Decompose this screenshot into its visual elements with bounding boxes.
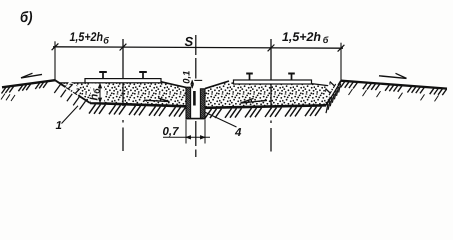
ground surface right xyxy=(341,81,447,89)
white gap for h_б dim xyxy=(91,84,105,103)
svg-text:S: S xyxy=(185,34,194,49)
ballast top dip to trench (right) xyxy=(205,81,229,89)
rail right-2 xyxy=(291,74,293,80)
hatch slope right xyxy=(339,84,341,93)
dim h_б arrows xyxy=(98,84,101,88)
trough bottom left xyxy=(90,103,186,106)
svg-text:4: 4 xyxy=(234,127,242,139)
slope arrow right trough xyxy=(241,100,268,103)
dimension tick slash x=271 xyxy=(268,45,275,52)
ground surface left xyxy=(2,80,55,87)
dimension tick slash x=123 xyxy=(120,44,127,51)
leader 4 xyxy=(205,112,237,127)
track axis right (x=271) xyxy=(270,39,272,108)
trough bottom right xyxy=(205,105,326,108)
leader 1 xyxy=(62,106,79,124)
dim label 0,1 xyxy=(182,70,193,85)
hatch ground right row2 xyxy=(349,89,353,95)
extension line right (x=341) xyxy=(340,43,342,81)
dim 0,1 arrows xyxy=(191,80,194,83)
dimension tick slash x=55 xyxy=(52,43,59,50)
dim 0,1 line xyxy=(191,80,193,88)
dim 0,7 line xyxy=(163,136,210,138)
hatch slope left xyxy=(54,85,60,93)
hatch ground left extra row xyxy=(1,94,5,100)
slope label left 1.1 xyxy=(64,81,83,98)
rail left-1 xyxy=(102,73,104,79)
sleeper right (plan plank) xyxy=(234,80,312,84)
slope arrow left trough xyxy=(144,100,170,101)
dim h_б line xyxy=(99,84,101,103)
dim label h_б xyxy=(89,88,102,101)
dim 0,7 arrows xyxy=(186,136,191,139)
svg-text:1: 1 xyxy=(56,120,62,132)
ballast top dip to trench (left) xyxy=(160,82,186,88)
track axis left (x=123) xyxy=(122,39,124,106)
dimension line top xyxy=(53,47,343,48)
svg-text:б: б xyxy=(323,35,329,45)
flow arrow right (ground) xyxy=(379,76,407,79)
rail right-1 xyxy=(249,74,251,80)
ballast bed left (stippled) xyxy=(60,82,187,106)
rail left-2 xyxy=(142,73,144,79)
ballast bed right (stippled) xyxy=(205,81,334,108)
hatch under trough bottom right xyxy=(205,109,212,118)
sleeper left (plan plank) xyxy=(85,79,161,83)
svg-text:1,5+2h: 1,5+2h xyxy=(282,30,321,44)
trench left wall xyxy=(186,87,191,118)
hatch ground right xyxy=(341,82,345,88)
trench bottom xyxy=(186,118,206,120)
flow arrow left (ground) xyxy=(21,74,42,78)
dim 0,7 ext lines xyxy=(185,120,187,144)
ballast top left of sleeper xyxy=(60,82,87,84)
ballast top right of sleeper xyxy=(312,84,335,87)
trench centerline dash (thick) xyxy=(193,91,196,106)
extension line left (x=55) xyxy=(54,41,56,80)
svg-text:0,1: 0,1 xyxy=(182,71,193,84)
dimension tick slash x=341 xyxy=(338,45,345,52)
svg-text:б): б) xyxy=(20,9,33,26)
trench right wall xyxy=(200,89,205,119)
hatch ground left xyxy=(2,88,6,94)
section centerline (x=196) xyxy=(195,35,197,55)
hatch under trough bottom left xyxy=(89,104,96,113)
reference tick at ballast top level xyxy=(194,79,202,81)
svg-text:1,5+2h: 1,5+2h xyxy=(70,30,104,44)
cut slope left 1:1 xyxy=(55,80,90,103)
cut slope right 1:1 xyxy=(326,81,341,106)
svg-text:б: б xyxy=(103,35,109,45)
svg-text:0,7: 0,7 xyxy=(163,126,180,138)
svg-text:hб: hб xyxy=(89,88,102,101)
slope label right 1.1 xyxy=(322,79,339,97)
